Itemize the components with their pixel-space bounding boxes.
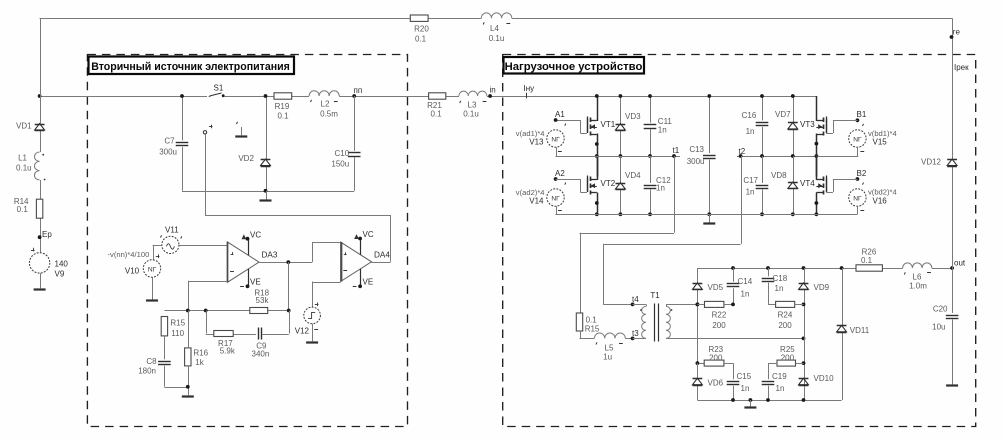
svg-text:1u: 1u bbox=[603, 353, 612, 362]
svg-text:R20: R20 bbox=[414, 25, 429, 34]
svg-text:C17: C17 bbox=[743, 176, 758, 185]
node Ep bbox=[38, 230, 53, 239]
junction C12 bottom bbox=[648, 212, 652, 216]
svg-text:VT3: VT3 bbox=[800, 120, 815, 129]
junction VD9 R24 bbox=[795, 303, 806, 307]
transformer T1 core bbox=[655, 304, 659, 342]
wire V15 bottom bbox=[816, 147, 857, 156]
wire C13 column bbox=[709, 96, 711, 214]
junction VT2 source bbox=[595, 201, 599, 216]
svg-text:5.9k: 5.9k bbox=[220, 347, 236, 356]
wire C19 column bbox=[768, 363, 777, 400]
svg-text:A1: A1 bbox=[555, 110, 565, 119]
wire L5 to t3 bbox=[625, 338, 632, 340]
resistor R23 bbox=[697, 345, 724, 366]
svg-text:t4: t4 bbox=[632, 295, 639, 304]
junction VD3 bottom bbox=[619, 154, 623, 158]
DA4 VE pin bbox=[353, 269, 373, 288]
capacitor C7 bbox=[159, 137, 188, 157]
capacitor C20 bbox=[932, 305, 958, 332]
wire DA4 -in to V12 bbox=[312, 282, 341, 308]
wire V12 to ground bbox=[312, 324, 314, 342]
transformer T1 primary bbox=[633, 304, 647, 338]
resistor R22 bbox=[697, 301, 726, 330]
label Iрек bbox=[954, 63, 969, 72]
wire VD9 column bbox=[804, 268, 806, 400]
ground below R16 bbox=[182, 395, 194, 397]
junction Ep bus bbox=[38, 94, 42, 98]
source V16 bbox=[849, 188, 897, 211]
node out bbox=[950, 259, 966, 270]
junction VT1 drain bbox=[595, 94, 599, 98]
wire rect top rail bbox=[697, 268, 952, 270]
svg-text:VD11: VD11 bbox=[850, 326, 870, 335]
node пп bbox=[352, 86, 362, 98]
transistor VT4 bbox=[800, 155, 827, 213]
wire VD8 column bbox=[793, 156, 795, 214]
svg-text:t1: t1 bbox=[673, 146, 680, 155]
wire feedback node rail bbox=[164, 310, 288, 312]
junction C11 bottom bbox=[648, 154, 652, 158]
junction rect rail VD9 bbox=[802, 266, 806, 270]
diode VD2 bbox=[238, 154, 270, 167]
resistor R16 bbox=[185, 348, 209, 367]
transistor VT1 bbox=[588, 96, 616, 154]
junction C13 top bbox=[707, 94, 711, 98]
title box: Нагрузочное устройство bbox=[504, 57, 645, 74]
S1 control ground bbox=[235, 122, 247, 137]
transistor VT2 bbox=[588, 155, 616, 213]
wire PSU bottom rail bbox=[182, 191, 354, 193]
resistor R18 bbox=[250, 289, 270, 314]
svg-text:C20: C20 bbox=[933, 305, 948, 314]
ground below C13 bbox=[703, 214, 715, 223]
diode VD9 bbox=[799, 283, 830, 292]
svg-text:0.1: 0.1 bbox=[586, 316, 598, 325]
svg-text:VD4: VD4 bbox=[625, 171, 641, 180]
junction secondary bottom at VD9 col bbox=[802, 337, 806, 341]
wire B2 gate bbox=[826, 178, 857, 193]
diode VD3 bbox=[616, 112, 642, 131]
svg-text:A2: A2 bbox=[555, 169, 565, 178]
wire V16 bottom bbox=[816, 206, 857, 214]
wire V9 to ground bbox=[40, 273, 42, 288]
capacitor C14 bbox=[727, 277, 753, 299]
junction rect rail VD11 bbox=[840, 266, 844, 270]
junction VD3 top bbox=[619, 94, 623, 98]
source V11 bbox=[161, 226, 182, 254]
diode VD5 bbox=[693, 283, 724, 292]
svg-text:C13: C13 bbox=[689, 145, 704, 154]
node A2 bbox=[554, 169, 566, 185]
node B1 bbox=[856, 110, 867, 126]
svg-text:v(bd2)*4: v(bd2)*4 bbox=[868, 188, 897, 197]
wire A2 gate bbox=[556, 179, 581, 181]
junction C17 bottom bbox=[760, 212, 764, 216]
wire DA3 out to DA4 +in bbox=[312, 242, 341, 262]
svg-text:R19: R19 bbox=[275, 102, 290, 111]
svg-text:VT2: VT2 bbox=[601, 179, 616, 188]
svg-text:0.1: 0.1 bbox=[17, 205, 29, 214]
svg-text:Вторичный источник электропита: Вторичный источник электропитания bbox=[91, 61, 290, 73]
svg-text:1n: 1n bbox=[741, 384, 750, 393]
inductor L4 bbox=[481, 13, 511, 43]
junction secondary top bbox=[696, 303, 700, 307]
wire rect bottom rail bbox=[697, 400, 841, 402]
svg-text:1n: 1n bbox=[658, 126, 667, 135]
svg-text:V11: V11 bbox=[165, 226, 179, 235]
DA3 VC pin bbox=[242, 231, 261, 256]
wire bottom rail bbox=[556, 214, 858, 216]
svg-text:VD1: VD1 bbox=[16, 122, 32, 131]
svg-text:0.1u: 0.1u bbox=[463, 110, 479, 119]
op-amp DA3 bbox=[227, 242, 277, 282]
svg-text:1k: 1k bbox=[195, 358, 204, 367]
capacitor C9 bbox=[252, 328, 270, 359]
wire left branch bbox=[40, 18, 42, 253]
wire right mid rail bbox=[737, 147, 858, 157]
wire main bus bbox=[40, 96, 817, 98]
wire DA3 -in bbox=[188, 281, 227, 311]
wire C10 column bbox=[354, 96, 356, 191]
wire R15 to L5 bbox=[580, 331, 595, 339]
wire VD7 column bbox=[793, 96, 795, 156]
wire V13 bottom bbox=[556, 147, 597, 156]
junction bottom C19 bbox=[766, 398, 770, 402]
svg-text:t3: t3 bbox=[632, 329, 639, 338]
node t4 bbox=[631, 295, 640, 306]
node t2 bbox=[739, 154, 743, 158]
svg-text:Ep: Ep bbox=[42, 230, 52, 239]
wire S1 control to DA4 output bbox=[205, 134, 391, 262]
diode VD1 bbox=[16, 122, 44, 131]
source V9 bbox=[29, 248, 68, 279]
svg-text:V16: V16 bbox=[873, 197, 888, 206]
source V15 bbox=[849, 129, 897, 152]
junction R16 top bbox=[186, 309, 190, 313]
svg-text:0.1u: 0.1u bbox=[16, 164, 32, 173]
junction DA3 out bbox=[286, 260, 290, 264]
svg-text:Iну: Iну bbox=[524, 84, 535, 93]
node t1 bbox=[672, 146, 680, 158]
svg-text:VE: VE bbox=[363, 277, 374, 286]
svg-text:L2: L2 bbox=[321, 100, 330, 109]
svg-text:200: 200 bbox=[778, 321, 792, 330]
svg-text:VD10: VD10 bbox=[814, 374, 835, 383]
svg-text:VD8: VD8 bbox=[771, 171, 787, 180]
svg-text:V15: V15 bbox=[873, 138, 888, 147]
wire V11 left to V10 bbox=[153, 245, 162, 260]
svg-text:10u: 10u bbox=[932, 323, 945, 332]
svg-text:Нагрузочное устройство: Нагрузочное устройство bbox=[505, 61, 643, 73]
capacitor C15 bbox=[727, 372, 752, 393]
svg-text:L6: L6 bbox=[913, 273, 922, 282]
svg-text:1n: 1n bbox=[746, 127, 755, 136]
diode VD12 bbox=[921, 158, 957, 167]
switch S1 bbox=[209, 84, 225, 98]
svg-text:VE: VE bbox=[250, 278, 261, 287]
source V12 bbox=[295, 303, 321, 336]
svg-text:re: re bbox=[953, 28, 961, 37]
junction R16 bottom bbox=[186, 385, 190, 389]
wire t1 to R15 primary bbox=[580, 156, 675, 313]
wire VD2 column bbox=[266, 96, 268, 191]
svg-text:V12: V12 bbox=[295, 327, 310, 336]
resistor R19 bbox=[274, 93, 292, 121]
dashed block border: Вторичный источник электропитания bbox=[87, 55, 407, 427]
capacitor C17 bbox=[743, 176, 768, 197]
diode VD4 bbox=[616, 171, 642, 190]
svg-text:0.1: 0.1 bbox=[861, 256, 873, 265]
svg-text:VD9: VD9 bbox=[814, 283, 830, 292]
svg-text:R24: R24 bbox=[778, 311, 793, 320]
svg-text:VD6: VD6 bbox=[708, 379, 724, 388]
gate wire VT1 bbox=[580, 119, 587, 134]
svg-text:DA4: DA4 bbox=[374, 251, 390, 260]
svg-text:B2: B2 bbox=[857, 169, 867, 178]
wire VD4 column bbox=[620, 156, 622, 214]
junction bottom gnd bbox=[749, 398, 753, 402]
svg-text:1n: 1n bbox=[656, 184, 665, 193]
junction VT3 source bbox=[815, 142, 819, 158]
junction R18 right bbox=[287, 309, 291, 313]
wire C14 column bbox=[724, 268, 734, 305]
svg-text:1n: 1n bbox=[775, 284, 784, 293]
ground PSU bottom bbox=[260, 191, 272, 201]
wire R16 column bbox=[188, 311, 190, 396]
wire t2 to t4 bbox=[603, 156, 741, 305]
svg-text:VT4: VT4 bbox=[800, 179, 815, 188]
resistor R21 bbox=[427, 93, 446, 119]
svg-text:V10: V10 bbox=[125, 267, 140, 276]
wire top rail Ep->re bbox=[40, 18, 953, 156]
junction VT4 source bbox=[815, 201, 819, 216]
svg-text:-v(nn)*4/100: -v(nn)*4/100 bbox=[108, 250, 150, 259]
junction C11 top bbox=[648, 94, 652, 98]
ground below C20 bbox=[946, 384, 958, 386]
wire VD6 column bbox=[697, 363, 699, 400]
svg-text:150u: 150u bbox=[331, 160, 349, 169]
diode VD7 bbox=[775, 110, 798, 130]
wire VT3-VT4 link bbox=[816, 154, 818, 177]
capacitor C16 bbox=[742, 111, 769, 136]
junction bottom VD10 bbox=[802, 398, 806, 402]
wire V10 to ground bbox=[152, 277, 154, 300]
svg-text:C14: C14 bbox=[738, 277, 753, 286]
svg-text:C15: C15 bbox=[737, 372, 752, 381]
svg-text:180n: 180n bbox=[138, 367, 156, 376]
svg-text:VD12: VD12 bbox=[921, 158, 942, 167]
junction RC branch bbox=[204, 309, 208, 313]
svg-text:NГ: NГ bbox=[551, 136, 560, 143]
wire VD3 column bbox=[620, 96, 622, 156]
svg-text:0.5m: 0.5m bbox=[320, 110, 338, 119]
svg-text:R15: R15 bbox=[170, 319, 185, 328]
junction VD2 top bbox=[264, 94, 268, 98]
junction C13 bottom bbox=[707, 212, 711, 216]
svg-text:140: 140 bbox=[55, 260, 69, 269]
wire VD12 column bbox=[952, 156, 954, 385]
svg-text:L1: L1 bbox=[18, 154, 27, 163]
svg-text:VC: VC bbox=[250, 231, 261, 240]
svg-text:0.1: 0.1 bbox=[430, 110, 442, 119]
svg-text:R22: R22 bbox=[712, 311, 727, 320]
diode VD10 bbox=[799, 374, 834, 386]
node t3 bbox=[631, 329, 640, 340]
node re bbox=[950, 28, 961, 39]
svg-text:1.0m: 1.0m bbox=[909, 282, 927, 291]
svg-text:L4: L4 bbox=[490, 24, 499, 33]
wire V11 to DA3 +in bbox=[179, 245, 227, 247]
ground below V12 bbox=[306, 341, 318, 343]
junction R23 left bbox=[696, 361, 700, 365]
title box: Вторичный источник электропитания bbox=[89, 57, 295, 75]
resistor R24 bbox=[776, 301, 795, 330]
DA4 VC pin bbox=[355, 230, 374, 255]
svg-text:in: in bbox=[490, 86, 496, 95]
junction bottom C15 bbox=[731, 398, 735, 402]
wire C7 column bbox=[182, 96, 184, 191]
svg-text:C18: C18 bbox=[773, 274, 788, 283]
capacitor C19 bbox=[762, 372, 788, 393]
svg-text:110: 110 bbox=[171, 329, 184, 338]
node A1 bbox=[554, 110, 566, 126]
svg-text:0.1u: 0.1u bbox=[489, 34, 505, 43]
svg-text:C7: C7 bbox=[164, 137, 175, 146]
wire C18 column bbox=[768, 268, 776, 305]
svg-text:S1: S1 bbox=[214, 84, 224, 93]
svg-text:DA3: DA3 bbox=[262, 251, 278, 260]
svg-text:NГ: NГ bbox=[551, 195, 560, 202]
transistor VT3 bbox=[800, 96, 827, 154]
wire VD5 column bbox=[697, 268, 699, 363]
svg-text:R15: R15 bbox=[585, 325, 600, 334]
junction VD7 top bbox=[791, 94, 795, 98]
wire left mid rail bbox=[556, 156, 681, 158]
node in bbox=[488, 86, 496, 98]
svg-text:1n: 1n bbox=[741, 290, 750, 299]
junction VD4 bottom bbox=[619, 212, 623, 216]
wire C15 column bbox=[724, 363, 734, 400]
svg-text:T1: T1 bbox=[650, 291, 660, 300]
svg-text:VD3: VD3 bbox=[625, 112, 641, 121]
dashed block border: Нагрузочное устройство bbox=[503, 55, 976, 427]
junction PSU ground bbox=[264, 189, 268, 193]
svg-text:L3: L3 bbox=[468, 101, 477, 110]
wire V14 bottom bbox=[556, 206, 597, 214]
svg-text:53k: 53k bbox=[256, 296, 270, 305]
diode VD8 bbox=[771, 171, 798, 189]
svg-text:200: 200 bbox=[709, 354, 723, 363]
svg-text:B1: B1 bbox=[857, 110, 867, 119]
wire DA3 out to R18 right node bbox=[288, 262, 290, 310]
resistor R14 bbox=[14, 197, 43, 218]
svg-text:NГ: NГ bbox=[148, 266, 157, 273]
svg-text:VD5: VD5 bbox=[708, 283, 724, 292]
svg-text:C8: C8 bbox=[146, 357, 157, 366]
svg-text:R16: R16 bbox=[193, 349, 208, 358]
capacitor C12 bbox=[644, 176, 672, 193]
svg-text:200: 200 bbox=[781, 354, 795, 363]
source V13 bbox=[516, 129, 564, 152]
ground below V9 bbox=[34, 288, 46, 290]
inductor L5 bbox=[594, 333, 625, 362]
wire C12 column bbox=[650, 156, 652, 214]
svg-text:V9: V9 bbox=[55, 270, 65, 279]
inductor L3 bbox=[459, 91, 487, 118]
wire R15 to C8 bbox=[164, 336, 166, 360]
svg-text:300u: 300u bbox=[687, 157, 705, 166]
svg-text:Iрек: Iрек bbox=[954, 63, 969, 72]
S1 control node bbox=[203, 125, 212, 134]
svg-text:NГ: NГ bbox=[853, 195, 862, 202]
capacitor C10 bbox=[331, 149, 360, 169]
resistor R15 primary bbox=[576, 313, 600, 334]
ground rect bottom bbox=[744, 400, 756, 408]
svg-text:C16: C16 bbox=[742, 111, 757, 120]
wire VD11 column bbox=[842, 268, 844, 400]
capacitor C18 bbox=[762, 274, 788, 293]
resistor R20 bbox=[410, 15, 429, 44]
svg-text:340n: 340n bbox=[252, 350, 270, 359]
svg-text:200: 200 bbox=[712, 321, 726, 330]
junction C7 top bbox=[180, 94, 184, 98]
gate wire VT2 bbox=[580, 178, 587, 193]
resistor R15 bbox=[161, 317, 185, 339]
source V10 bbox=[108, 250, 161, 277]
junction VD8 bottom bbox=[791, 212, 795, 216]
svg-text:VD2: VD2 bbox=[238, 154, 254, 163]
wire VT1-VT2 link bbox=[597, 154, 599, 177]
svg-text:0.1: 0.1 bbox=[277, 112, 289, 121]
junction rect rail C14 bbox=[731, 266, 735, 270]
transformer T1 secondary bbox=[666, 304, 804, 338]
svg-text:VD7: VD7 bbox=[775, 110, 791, 119]
wire C16 column bbox=[762, 96, 764, 156]
junction VT1 source bbox=[595, 142, 599, 158]
resistor R25 bbox=[777, 345, 804, 366]
diode VD11 bbox=[837, 325, 870, 335]
op-amp DA4 bbox=[341, 242, 391, 281]
svg-text:V14: V14 bbox=[529, 197, 544, 206]
current label Iну bbox=[524, 84, 535, 98]
junction VD5 R22 bbox=[696, 303, 700, 307]
wire RC branch bbox=[206, 311, 290, 335]
wire B1 gate bbox=[826, 119, 857, 134]
DA3 VE pin bbox=[240, 269, 261, 288]
junction rect rail C18 bbox=[766, 266, 770, 270]
junction C16 bottom bbox=[760, 154, 764, 158]
diode VD6 bbox=[693, 378, 724, 387]
svg-text:VT1: VT1 bbox=[601, 120, 616, 129]
ground below V10 bbox=[146, 299, 158, 301]
wire C11 column bbox=[650, 96, 652, 156]
svg-text:1n: 1n bbox=[776, 384, 785, 393]
capacitor C8 bbox=[138, 357, 170, 376]
transformer T1 label bbox=[650, 291, 660, 300]
capacitor C11 bbox=[644, 117, 673, 135]
svg-text:C10: C10 bbox=[335, 149, 350, 158]
svg-text:C19: C19 bbox=[772, 372, 787, 381]
source V14 bbox=[516, 188, 564, 211]
junction C16 top bbox=[760, 94, 764, 98]
wire DA3 out bbox=[259, 262, 312, 264]
svg-text:L5: L5 bbox=[605, 344, 614, 353]
svg-text:NГ: NГ bbox=[853, 136, 862, 143]
wire C17 column bbox=[762, 156, 764, 214]
resistor R17 bbox=[214, 331, 236, 356]
junction C14 R22 bbox=[731, 303, 735, 307]
